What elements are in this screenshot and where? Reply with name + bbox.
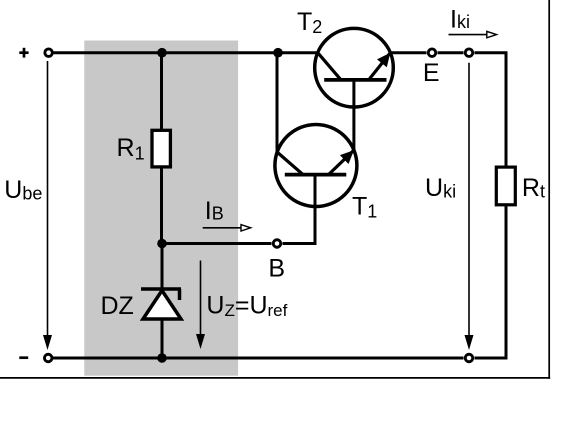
wire: bottom rail from zener junction to Uki bottom terminal [162, 357, 464, 360]
load resistor Rt [496, 53, 515, 358]
current arrow Iki [449, 31, 497, 37]
wire: B terminal to T1 base lead [283, 175, 316, 244]
zener diode DZ [141, 244, 181, 359]
terminal + (input positive) [45, 49, 53, 57]
junction dot at zener bottom [157, 353, 167, 363]
svg-text:E: E [423, 59, 440, 87]
wire: top rail from R1 junction to T1-collector junction [162, 51, 278, 54]
wire: top rail from junction into T2 collector [278, 51, 318, 54]
terminal Uki bottom [465, 354, 473, 362]
shaded reference-section region [84, 41, 238, 376]
voltage arrow Uki [465, 63, 474, 350]
transistor T1 [275, 125, 357, 207]
current arrow IB [203, 225, 251, 231]
junction dot at R1 top [157, 48, 167, 58]
svg-text:DZ: DZ [101, 292, 134, 320]
wire: E terminal to Uki terminal [438, 51, 464, 54]
wire: bottom rail from - terminal to zener junction [53, 357, 162, 360]
junction dot at T1 collector tie [273, 48, 283, 58]
svg-text:B: B [268, 254, 285, 282]
terminal Uki top [465, 49, 473, 57]
voltage arrow Ube [43, 61, 52, 350]
voltage arrow UZ=Uref [196, 261, 205, 350]
wire: T2 base down to T1 emitter [352, 80, 355, 151]
wire: top rail from + terminal to R1 junction [54, 51, 163, 54]
junction dot at R1 bottom / zener node [157, 239, 167, 249]
wire: base node from junction to B terminal [162, 242, 272, 245]
terminal - (input negative) [44, 354, 52, 362]
resistor R1 [152, 53, 170, 244]
frame border (decorative) [548, 0, 550, 379]
wire: T1 collector up to top rail [276, 53, 279, 153]
label + [19, 48, 28, 58]
transistor T2 [315, 28, 394, 107]
wire: top rail to right corner [475, 51, 508, 54]
label - [19, 356, 28, 359]
terminal E [428, 49, 436, 57]
terminal B [273, 240, 281, 248]
wire: T2 emitter to E terminal [390, 51, 427, 54]
wire: bottom rail from Uki terminal to right corner [475, 357, 508, 360]
